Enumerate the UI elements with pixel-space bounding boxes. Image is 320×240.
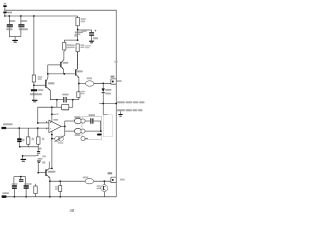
resistor R3 100k <box>63 40 65 42</box>
label text <box>42 161 45 163</box>
inductor L2 ferrite <box>83 177 89 179</box>
resistor R12 <box>35 184 37 186</box>
node junction <box>64 126 66 128</box>
node junction <box>51 138 53 140</box>
resistor R8 from Q3 emitter <box>77 92 80 98</box>
pin 3 <box>81 137 85 141</box>
wire <box>85 130 101 132</box>
ground <box>89 41 94 42</box>
note text IC1 <box>85 45 91 46</box>
wire noninv input <box>38 122 49 124</box>
resistor R2 <box>32 75 35 82</box>
pin 2 <box>81 129 85 133</box>
wire Q1 emitter <box>50 90 57 99</box>
node junction <box>103 180 105 182</box>
node junction <box>37 172 39 174</box>
capacitor C10 small <box>20 177 22 180</box>
wire feedback to opamp <box>38 107 57 123</box>
wire node line <box>47 65 49 74</box>
resistor R9 <box>27 128 29 137</box>
node junction <box>19 146 21 148</box>
wire join <box>9 36 21 38</box>
resistor R4 <box>77 16 79 18</box>
node junction <box>51 134 53 136</box>
capacitor C11 <box>13 177 15 186</box>
wire join <box>20 146 38 148</box>
resistor R7 <box>56 100 58 108</box>
node junction <box>100 130 102 132</box>
wire input line <box>2 127 49 129</box>
ground <box>12 40 18 41</box>
wire collector from opamp <box>51 131 53 168</box>
battery terminal pad 0V <box>4 3 7 5</box>
node junction <box>78 83 80 85</box>
wire bottom signal line <box>50 180 85 182</box>
resistor R10 <box>37 128 39 137</box>
wire <box>94 82 111 84</box>
terminal pad +9V <box>3 12 6 14</box>
node junction <box>102 82 104 84</box>
wire <box>4 13 6 16</box>
wire <box>37 163 39 173</box>
node junction <box>4 15 6 17</box>
node junction <box>77 29 79 31</box>
capacitor C3 tantal <box>31 89 37 91</box>
node junction <box>20 15 22 17</box>
wire power pin <box>51 107 53 121</box>
wire <box>99 103 116 105</box>
node junction <box>18 127 20 129</box>
capacitor C9 inside jack <box>85 120 90 122</box>
resistor R6 100k <box>76 44 79 52</box>
node junction <box>33 15 35 17</box>
wire Q1 emitter node <box>56 99 58 101</box>
net label LINE IN <box>3 123 13 125</box>
wire <box>94 180 111 182</box>
transistor Q4 BC550C <box>45 169 46 176</box>
wire output <box>61 125 65 127</box>
wire top link <box>14 176 26 178</box>
net label CA text 2 <box>117 109 125 111</box>
node junction <box>8 15 10 17</box>
switch contact bar <box>97 134 102 136</box>
trimmer P1 <box>39 148 42 150</box>
pin 1 <box>81 119 85 123</box>
connector K3 output jack <box>108 172 113 174</box>
inductor L1 ferrite bead <box>87 77 92 79</box>
svg-text:48: 48 <box>70 208 75 213</box>
capacitor C8 branch B <box>64 126 66 131</box>
wire <box>64 39 77 41</box>
node junction <box>47 73 49 75</box>
wire stub <box>103 114 107 116</box>
node junction <box>37 122 39 124</box>
node junction <box>51 113 53 115</box>
transistor Q5 in circle <box>103 181 105 184</box>
wire base <box>38 172 45 174</box>
node +9V label <box>7 12 12 14</box>
node junction <box>20 176 22 178</box>
node junction <box>33 84 35 86</box>
shield box outline <box>103 115 112 137</box>
diode D1 <box>102 83 104 88</box>
node +4V5 label <box>75 32 83 34</box>
terminal input pad <box>1 127 6 129</box>
node junction <box>64 73 66 75</box>
wire pin3 stub <box>85 138 88 140</box>
node junction <box>115 103 117 105</box>
node junction <box>37 127 39 129</box>
wire <box>4 7 6 10</box>
transistor Q3 BC550C <box>75 69 76 75</box>
wire +9V rail <box>4 15 78 17</box>
capacitor C6 input <box>18 128 20 138</box>
capacitor C1 100n <box>9 20 15 22</box>
label text <box>42 156 46 158</box>
wire base feed <box>34 84 45 86</box>
ground <box>32 100 38 101</box>
wire wiper line <box>23 155 36 157</box>
wire bottom ground rail <box>4 196 117 198</box>
capacitor C12 <box>25 177 27 186</box>
node junction <box>51 106 53 108</box>
wire bias feed <box>33 16 35 75</box>
connector K1 output jack <box>111 76 115 78</box>
wire ground top rail to right side down to bottom rail <box>4 10 116 197</box>
transistor Q1 BC560C <box>45 80 46 88</box>
ground <box>22 156 24 159</box>
op-amp IC1a <box>49 120 61 132</box>
capacitor C7 branch A <box>64 121 66 126</box>
capacitor C4 100u <box>82 31 87 32</box>
node junction <box>102 103 104 105</box>
node junction <box>49 180 51 182</box>
connector K2 jack box <box>82 116 102 139</box>
ground <box>119 111 121 114</box>
transistor Q2 BC550C <box>60 62 61 68</box>
net label <box>114 61 118 63</box>
node junction <box>49 196 51 198</box>
node junction <box>77 39 79 41</box>
terminal 0V pad <box>2 195 7 198</box>
capacitor C5 <box>62 94 68 96</box>
wire <box>78 29 92 31</box>
net label CA text 1 <box>117 101 125 103</box>
opto lamp LA1 <box>52 138 55 140</box>
label <box>58 142 64 143</box>
node junction <box>51 168 53 170</box>
capacitor C2 100u <box>21 20 27 22</box>
resistor R11 <box>59 180 61 182</box>
net label 0V <box>2 192 9 194</box>
